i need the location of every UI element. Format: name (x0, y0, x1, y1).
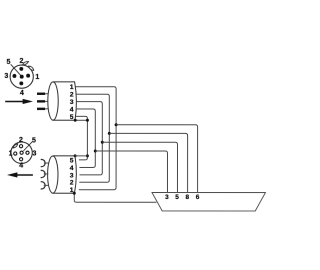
shield wire P2 shell to X1 housing (74, 193, 156, 202)
P1 rear ellipse (48, 82, 58, 120)
D-sub connector X1 (trapezoid) (152, 193, 266, 211)
bridge dot top-left (shell junction P1) (74, 119, 77, 122)
J1 pin 2 (top) (19, 67, 23, 71)
P1 male contact bar b (37, 100, 45, 102)
svg-text:5: 5 (175, 194, 179, 201)
svg-text:3: 3 (70, 99, 74, 106)
svg-text:4: 4 (19, 162, 23, 169)
branch wire to X1 pin 3 (95, 151, 167, 193)
connector J1 (M12 male, top-left) circle (10, 65, 33, 88)
J1 pin 5 (center) (20, 75, 24, 79)
J1 pin 4 (bottom) (19, 81, 23, 85)
svg-text:5: 5 (6, 59, 10, 66)
svg-text:8: 8 (185, 194, 189, 201)
wire pin1: P1.1 to P2.1 (76, 87, 117, 190)
J1 keying notch B (29, 66, 34, 70)
wire pin3: P1.3 to P2.3 (76, 102, 102, 175)
junction dot pin2 branch (108, 132, 111, 135)
J1 keying notch A (22, 62, 28, 65)
P2 female contact hook b (41, 170, 45, 177)
arrow left (mating direction J2) (7, 172, 33, 177)
cylinder P2 (female cable end) body (53, 156, 77, 193)
J2 socket 1 (left) (14, 152, 17, 155)
P2 female contact stub a (44, 162, 49, 164)
svg-text:2: 2 (70, 180, 74, 187)
J2 socket 5 (center) (20, 151, 23, 154)
svg-text:5: 5 (70, 157, 74, 164)
branch wire to X1 pin 5 (102, 142, 177, 192)
svg-text:3: 3 (165, 194, 169, 201)
branch wire to X1 pin 6 (116, 125, 198, 193)
P2 female contact stub c (44, 184, 49, 186)
shield junction dot on P2 shell (73, 192, 76, 195)
P2 top edge extension to bridge (75, 155, 88, 157)
svg-text:2: 2 (19, 137, 23, 144)
arrow right (mating direction J1) (5, 99, 33, 104)
cylinder P1 (male cable end) body (53, 82, 76, 120)
svg-text:2: 2 (20, 58, 24, 65)
J1 pin 1 (right) (26, 74, 30, 78)
connector J2 (M12 female, bottom-left) circle (11, 142, 32, 163)
J2 socket 3 (right) (26, 151, 29, 154)
wire pin4: P1.4 to P2.4 (76, 109, 95, 168)
bridge dot bottom-left (shell junction P2) (74, 154, 77, 157)
P2 female contact hook a (41, 159, 45, 166)
svg-text:4: 4 (70, 165, 74, 172)
J2 keying notch (13, 144, 18, 148)
P1 male contact bar c (37, 108, 45, 110)
svg-text:5: 5 (32, 137, 36, 144)
P2 female contact stub b (44, 173, 49, 175)
P1 bottom edge extension to bridge (75, 119, 88, 121)
J1 pin 5 pointer line (11, 64, 21, 75)
P1 male contact bar a (37, 93, 45, 95)
P2 female contact hook c (41, 182, 45, 189)
branch wire to X1 pin 8 (109, 133, 187, 192)
junction dot pin4 branch (94, 149, 97, 152)
P2 rear ellipse (48, 156, 58, 193)
bridge dot top-right (86, 119, 89, 122)
svg-text:3: 3 (70, 172, 74, 179)
J2 socket 5 pointer line (23, 142, 32, 151)
svg-text:3: 3 (32, 151, 36, 158)
junction dot pin3 branch (101, 141, 104, 144)
junction dot pin1 branch (115, 123, 118, 126)
wire pin5 / shield bridge (75, 116, 87, 160)
svg-text:4: 4 (70, 106, 74, 113)
svg-text:2: 2 (70, 92, 74, 99)
bridge dot bottom-right (86, 154, 89, 157)
svg-text:1: 1 (9, 150, 13, 157)
svg-text:5: 5 (70, 114, 74, 121)
J2 socket 2 (top) (19, 145, 22, 148)
wire pin2: P1.2 to P2.2 (76, 94, 109, 182)
svg-text:3: 3 (4, 73, 8, 80)
J2 socket 4 (bottom) (19, 158, 22, 161)
svg-text:1: 1 (70, 84, 74, 91)
J1 pin 3 (left) (12, 74, 16, 78)
svg-text:1: 1 (35, 74, 39, 81)
svg-text:4: 4 (20, 90, 24, 97)
svg-text:6: 6 (196, 194, 200, 201)
